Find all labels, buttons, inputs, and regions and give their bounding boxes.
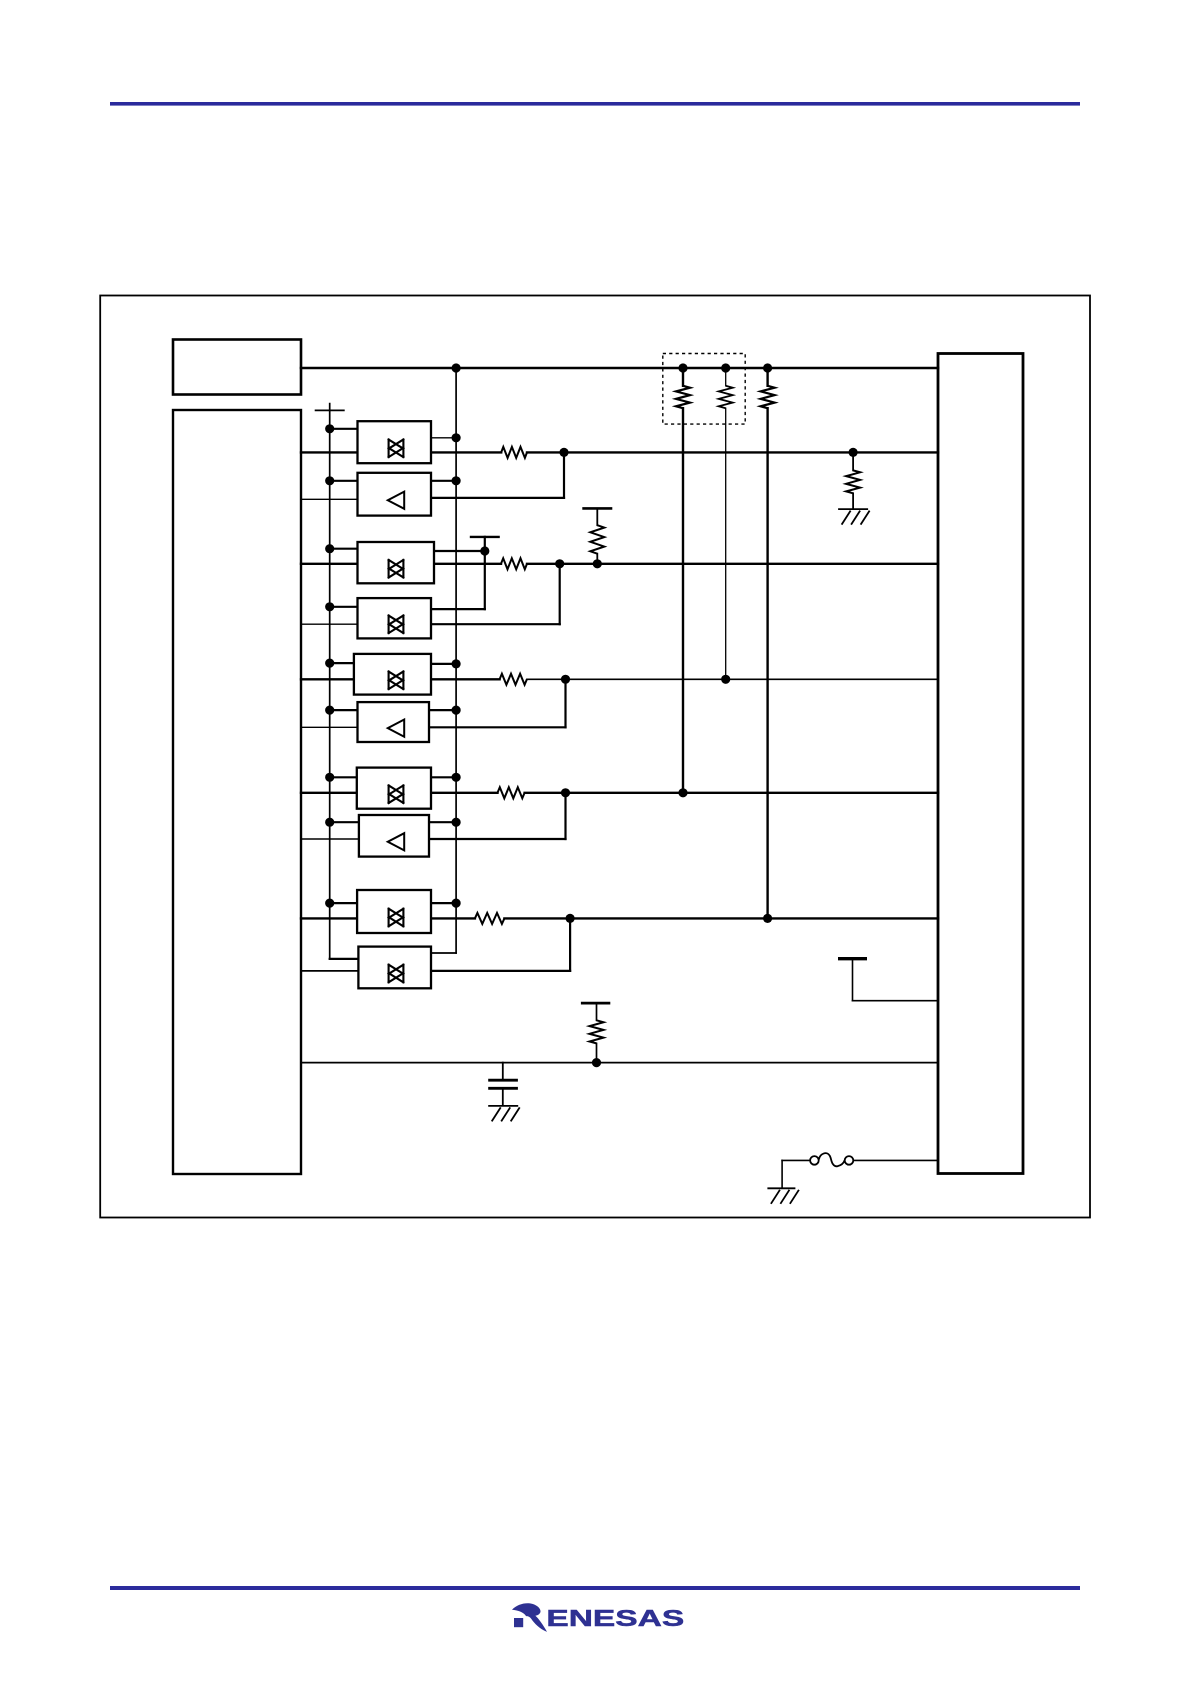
wire control line v1: [329, 410, 331, 959]
node bus1-R3: [763, 363, 772, 372]
ground GND3: [767, 1187, 795, 1189]
wire out1 B3: [431, 550, 485, 552]
buffer B3: [358, 542, 435, 583]
node bus1-R2: [721, 363, 730, 372]
Renesas logo: [512, 1603, 684, 1632]
wire in2 B2: [301, 498, 358, 500]
node bus3 feedback: [555, 559, 564, 568]
wire bus1 VCC rail: [301, 367, 938, 370]
wire stem v3: [484, 537, 486, 609]
node in1 B5: [325, 659, 334, 668]
resistor R3: [766, 368, 768, 386]
wire feedback pair4: [564, 793, 566, 839]
node bus2 pulldown: [849, 448, 858, 457]
power rail V1 bar: [329, 404, 331, 411]
wire in2 B8: [301, 838, 358, 840]
wire V5 to connector: [853, 1000, 939, 1002]
resistor R10: [475, 913, 505, 924]
wire out1 B7: [431, 776, 456, 778]
buffer B9: [357, 890, 431, 933]
node out1 B6: [452, 706, 461, 715]
buffer B1: [358, 421, 432, 463]
resistor R5 pulldown: [852, 452, 854, 470]
wire bus2 from MCU: [301, 451, 358, 453]
wire in2 B4: [301, 623, 358, 625]
buffer B5: [354, 654, 431, 695]
diagram frame: [100, 296, 1090, 1218]
wire out1 B1: [431, 437, 456, 439]
wire feedback pair3: [564, 679, 566, 727]
wire in1 B1: [330, 428, 358, 430]
node bus6 feedback: [566, 914, 575, 923]
wire bus5 from MCU: [301, 792, 358, 794]
node out1 B1: [452, 433, 461, 442]
resistor R1: [682, 368, 684, 386]
buffer B4: [358, 598, 432, 638]
wire fuse to ground: [781, 1160, 783, 1187]
wire in1 B9: [330, 902, 358, 904]
power rail V5 bar: [838, 957, 867, 960]
wire bus2 to connector: [527, 451, 938, 453]
wire bus3 from MCU: [301, 563, 358, 565]
node out1 B3: [480, 546, 489, 555]
wire out1 B5: [431, 663, 456, 665]
wire in1 B8: [330, 821, 358, 823]
wire out1 B4: [431, 608, 485, 610]
node in1 B1: [325, 424, 334, 433]
wire bus6 from MCU: [301, 917, 358, 919]
connector block (right): [938, 354, 1023, 1174]
node bus3 pullup: [593, 559, 602, 568]
buffer B2: [358, 473, 432, 516]
node bus4 R2: [721, 675, 730, 684]
node in1 B8: [325, 818, 334, 827]
node bus1-v2: [452, 363, 461, 372]
resistor R7 pullup: [596, 508, 598, 525]
wire bus6 to resistor: [431, 917, 475, 919]
wire bus6 to connector: [504, 917, 938, 919]
wire in1 B2: [330, 480, 358, 482]
wire in1 B3: [330, 548, 358, 550]
wire feedback pair1: [563, 452, 565, 498]
wire out1 B10: [431, 952, 456, 954]
node out1 B7: [452, 773, 461, 782]
node bus2 feedback: [559, 448, 568, 457]
power rail V2 bar: [582, 507, 612, 510]
resistor R9: [498, 787, 525, 798]
power rail V4 bar: [581, 1002, 610, 1005]
node out1 B8: [452, 818, 461, 827]
node bus4 feedback: [561, 675, 570, 684]
node out1 B5: [452, 659, 461, 668]
resistor R6: [501, 558, 527, 569]
wire out1 B8: [431, 821, 456, 823]
buffer B8: [359, 815, 429, 857]
MCU block (left): [173, 410, 301, 1174]
node in1 B4: [325, 602, 334, 611]
ground GND1: [838, 508, 868, 510]
fuse F1: [782, 1159, 810, 1161]
node out1 B9: [452, 899, 461, 908]
dotted option box: [663, 354, 745, 425]
node bus5 feedback: [561, 788, 570, 797]
header rule: [110, 102, 1080, 106]
wire bus7 XTAL line: [301, 1062, 938, 1064]
ground GND2: [488, 1105, 518, 1107]
wire in1 B4: [330, 606, 358, 608]
node in1 B6: [325, 706, 334, 715]
wire out1 B2: [431, 480, 456, 482]
wire V5 stem: [852, 959, 854, 1001]
node out1 B2: [452, 476, 461, 485]
footer rule: [110, 1586, 1080, 1590]
wire bus3 to connector: [527, 563, 938, 565]
capacitor C1: [502, 1063, 504, 1081]
wire bus2 to resistor: [431, 451, 501, 453]
node bus6 R3: [763, 914, 772, 923]
resistor R8: [500, 674, 527, 685]
buffer B7: [357, 768, 431, 809]
node in1 B7: [325, 773, 334, 782]
wire feedback pair2b: [559, 564, 561, 624]
oscillator box (top-left): [173, 340, 301, 395]
wire bus5 to resistor: [431, 792, 498, 794]
resistor R11 pullup: [596, 1003, 598, 1020]
wire bus4 to connector: [527, 678, 938, 680]
power rail V3 bar: [470, 536, 500, 538]
wire in1 B7: [330, 776, 358, 778]
node bus1-R1: [678, 363, 687, 372]
wire in1 B6: [330, 709, 358, 711]
resistor R4: [501, 447, 527, 458]
wire in1 B10: [330, 958, 358, 960]
node in1 B3: [325, 544, 334, 553]
node in1 B2: [325, 476, 334, 485]
node bus5 R1: [678, 788, 687, 797]
buffer B6: [358, 702, 430, 742]
wire out1 B6: [431, 709, 456, 711]
wire in2 B6: [301, 726, 358, 728]
wire bus4 to resistor: [431, 678, 500, 680]
wire bus4 from MCU: [301, 678, 358, 680]
wire feedback pair5: [569, 918, 571, 971]
wire in1 B5: [330, 662, 358, 664]
wire out1 B9: [431, 902, 456, 904]
wire control line v2: [455, 368, 457, 953]
wire bus5 to connector: [525, 792, 938, 794]
node bus7 pullup: [592, 1058, 601, 1067]
resistor R2: [725, 368, 727, 386]
buffer B10: [358, 947, 431, 989]
wire in2 B10: [301, 970, 358, 972]
wire bus3 to resistor: [431, 563, 501, 565]
svg-text:ENESAS: ENESAS: [546, 1605, 684, 1631]
node in1 B9: [325, 899, 334, 908]
